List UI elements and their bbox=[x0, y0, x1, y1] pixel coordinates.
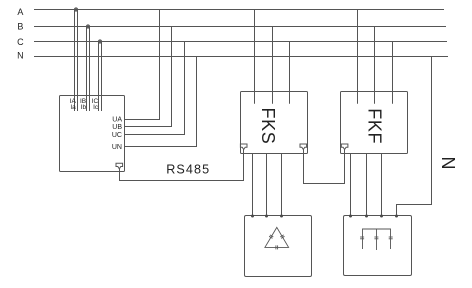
svg-text:N: N bbox=[438, 157, 458, 170]
wire FKF output 3 bbox=[381, 154, 383, 216]
wire RS485 FKS to FKF bbox=[304, 150, 345, 184]
delta symbol bbox=[265, 227, 289, 247]
wire FKS feed phase A bbox=[254, 10, 256, 104]
wire UA to bus A bbox=[125, 10, 160, 120]
wire FKS output 2 bbox=[266, 154, 268, 216]
capacitor bank box C1 (delta) bbox=[245, 216, 312, 277]
capacitor mark delta left bbox=[269, 235, 273, 238]
capacitor mark star left bbox=[360, 237, 364, 239]
capacitor bank box C2 (star) bbox=[344, 216, 412, 276]
wire CT TA3 secondary Ic bbox=[101, 42, 103, 112]
svg-text:UC: UC bbox=[112, 132, 122, 139]
controller FKS box bbox=[241, 92, 308, 154]
wire FKF output 1 bbox=[350, 154, 352, 216]
svg-text:RS485: RS485 bbox=[166, 163, 210, 177]
terminal C2-4 bbox=[395, 215, 398, 218]
wire N branch to capacitor bank bbox=[397, 57, 432, 216]
bus C bbox=[34, 41, 447, 43]
wire RS485 meter to FKS bbox=[120, 149, 244, 180]
RS485 port FKS left bbox=[240, 144, 247, 150]
bus A bbox=[34, 9, 444, 11]
terminal C2-1 bbox=[349, 215, 352, 218]
svg-text:Ia: Ia bbox=[70, 104, 76, 111]
wire FKS feed phase B bbox=[272, 27, 274, 104]
wire CT TA1 secondary Ia bbox=[77, 10, 79, 112]
terminal C1-1 bbox=[251, 215, 254, 218]
wire FKS output 1 bbox=[252, 154, 254, 216]
wire UN to bus N bbox=[125, 57, 197, 147]
capacitor mark delta bottom bbox=[276, 245, 278, 249]
RS485 port FKS right bbox=[300, 144, 307, 150]
svg-text:UB: UB bbox=[112, 124, 122, 131]
star middle leg bbox=[376, 229, 378, 250]
wire FKF feed phase B bbox=[374, 27, 376, 104]
wire FKF output 2 bbox=[366, 154, 368, 216]
svg-text:FKF: FKF bbox=[364, 108, 384, 144]
terminal C1-3 bbox=[280, 215, 283, 218]
wire CT TA1 secondary IA bbox=[74, 10, 76, 112]
svg-text:N: N bbox=[17, 51, 24, 61]
CT TA2 on bus B bbox=[87, 25, 90, 28]
svg-text:Ib: Ib bbox=[81, 104, 87, 111]
wire CT TA2 secondary Ib bbox=[89, 27, 91, 112]
svg-text:FKS: FKS bbox=[258, 107, 278, 144]
svg-text:UA: UA bbox=[112, 116, 122, 123]
CT TA1 on bus A bbox=[75, 8, 78, 11]
terminal C2-2 bbox=[365, 215, 368, 218]
wire CT TA2 secondary IB bbox=[86, 27, 88, 112]
controller FKF box bbox=[341, 92, 408, 154]
svg-text:C: C bbox=[17, 37, 24, 47]
terminal C2-3 bbox=[380, 215, 383, 218]
capacitor mark star right bbox=[389, 237, 393, 239]
wire FKS output 3 bbox=[281, 154, 283, 216]
wire FKS feed phase C bbox=[289, 42, 291, 104]
capacitor mark delta right bbox=[280, 235, 284, 238]
wire UC to bus C bbox=[125, 42, 185, 135]
bus N bbox=[34, 56, 448, 58]
star bus bar bbox=[363, 229, 391, 249]
wire FKF feed phase C bbox=[392, 42, 394, 104]
wire FKF feed phase A bbox=[357, 10, 359, 104]
svg-text:Ic: Ic bbox=[93, 104, 99, 111]
terminal C1-2 bbox=[265, 215, 268, 218]
CT TA3 on bus C bbox=[99, 40, 102, 43]
svg-text:UN: UN bbox=[112, 144, 122, 151]
bus B bbox=[34, 26, 446, 28]
svg-text:A: A bbox=[17, 7, 23, 17]
wire UB to bus B bbox=[125, 27, 172, 127]
meter box M1 bbox=[60, 96, 125, 172]
capacitor mark star middle bbox=[374, 237, 378, 239]
RS485 port on meter M1 bbox=[116, 163, 123, 169]
wire CT TA3 secondary IC bbox=[98, 42, 100, 112]
RS485 port FKF left bbox=[341, 144, 348, 150]
svg-text:B: B bbox=[17, 22, 23, 32]
